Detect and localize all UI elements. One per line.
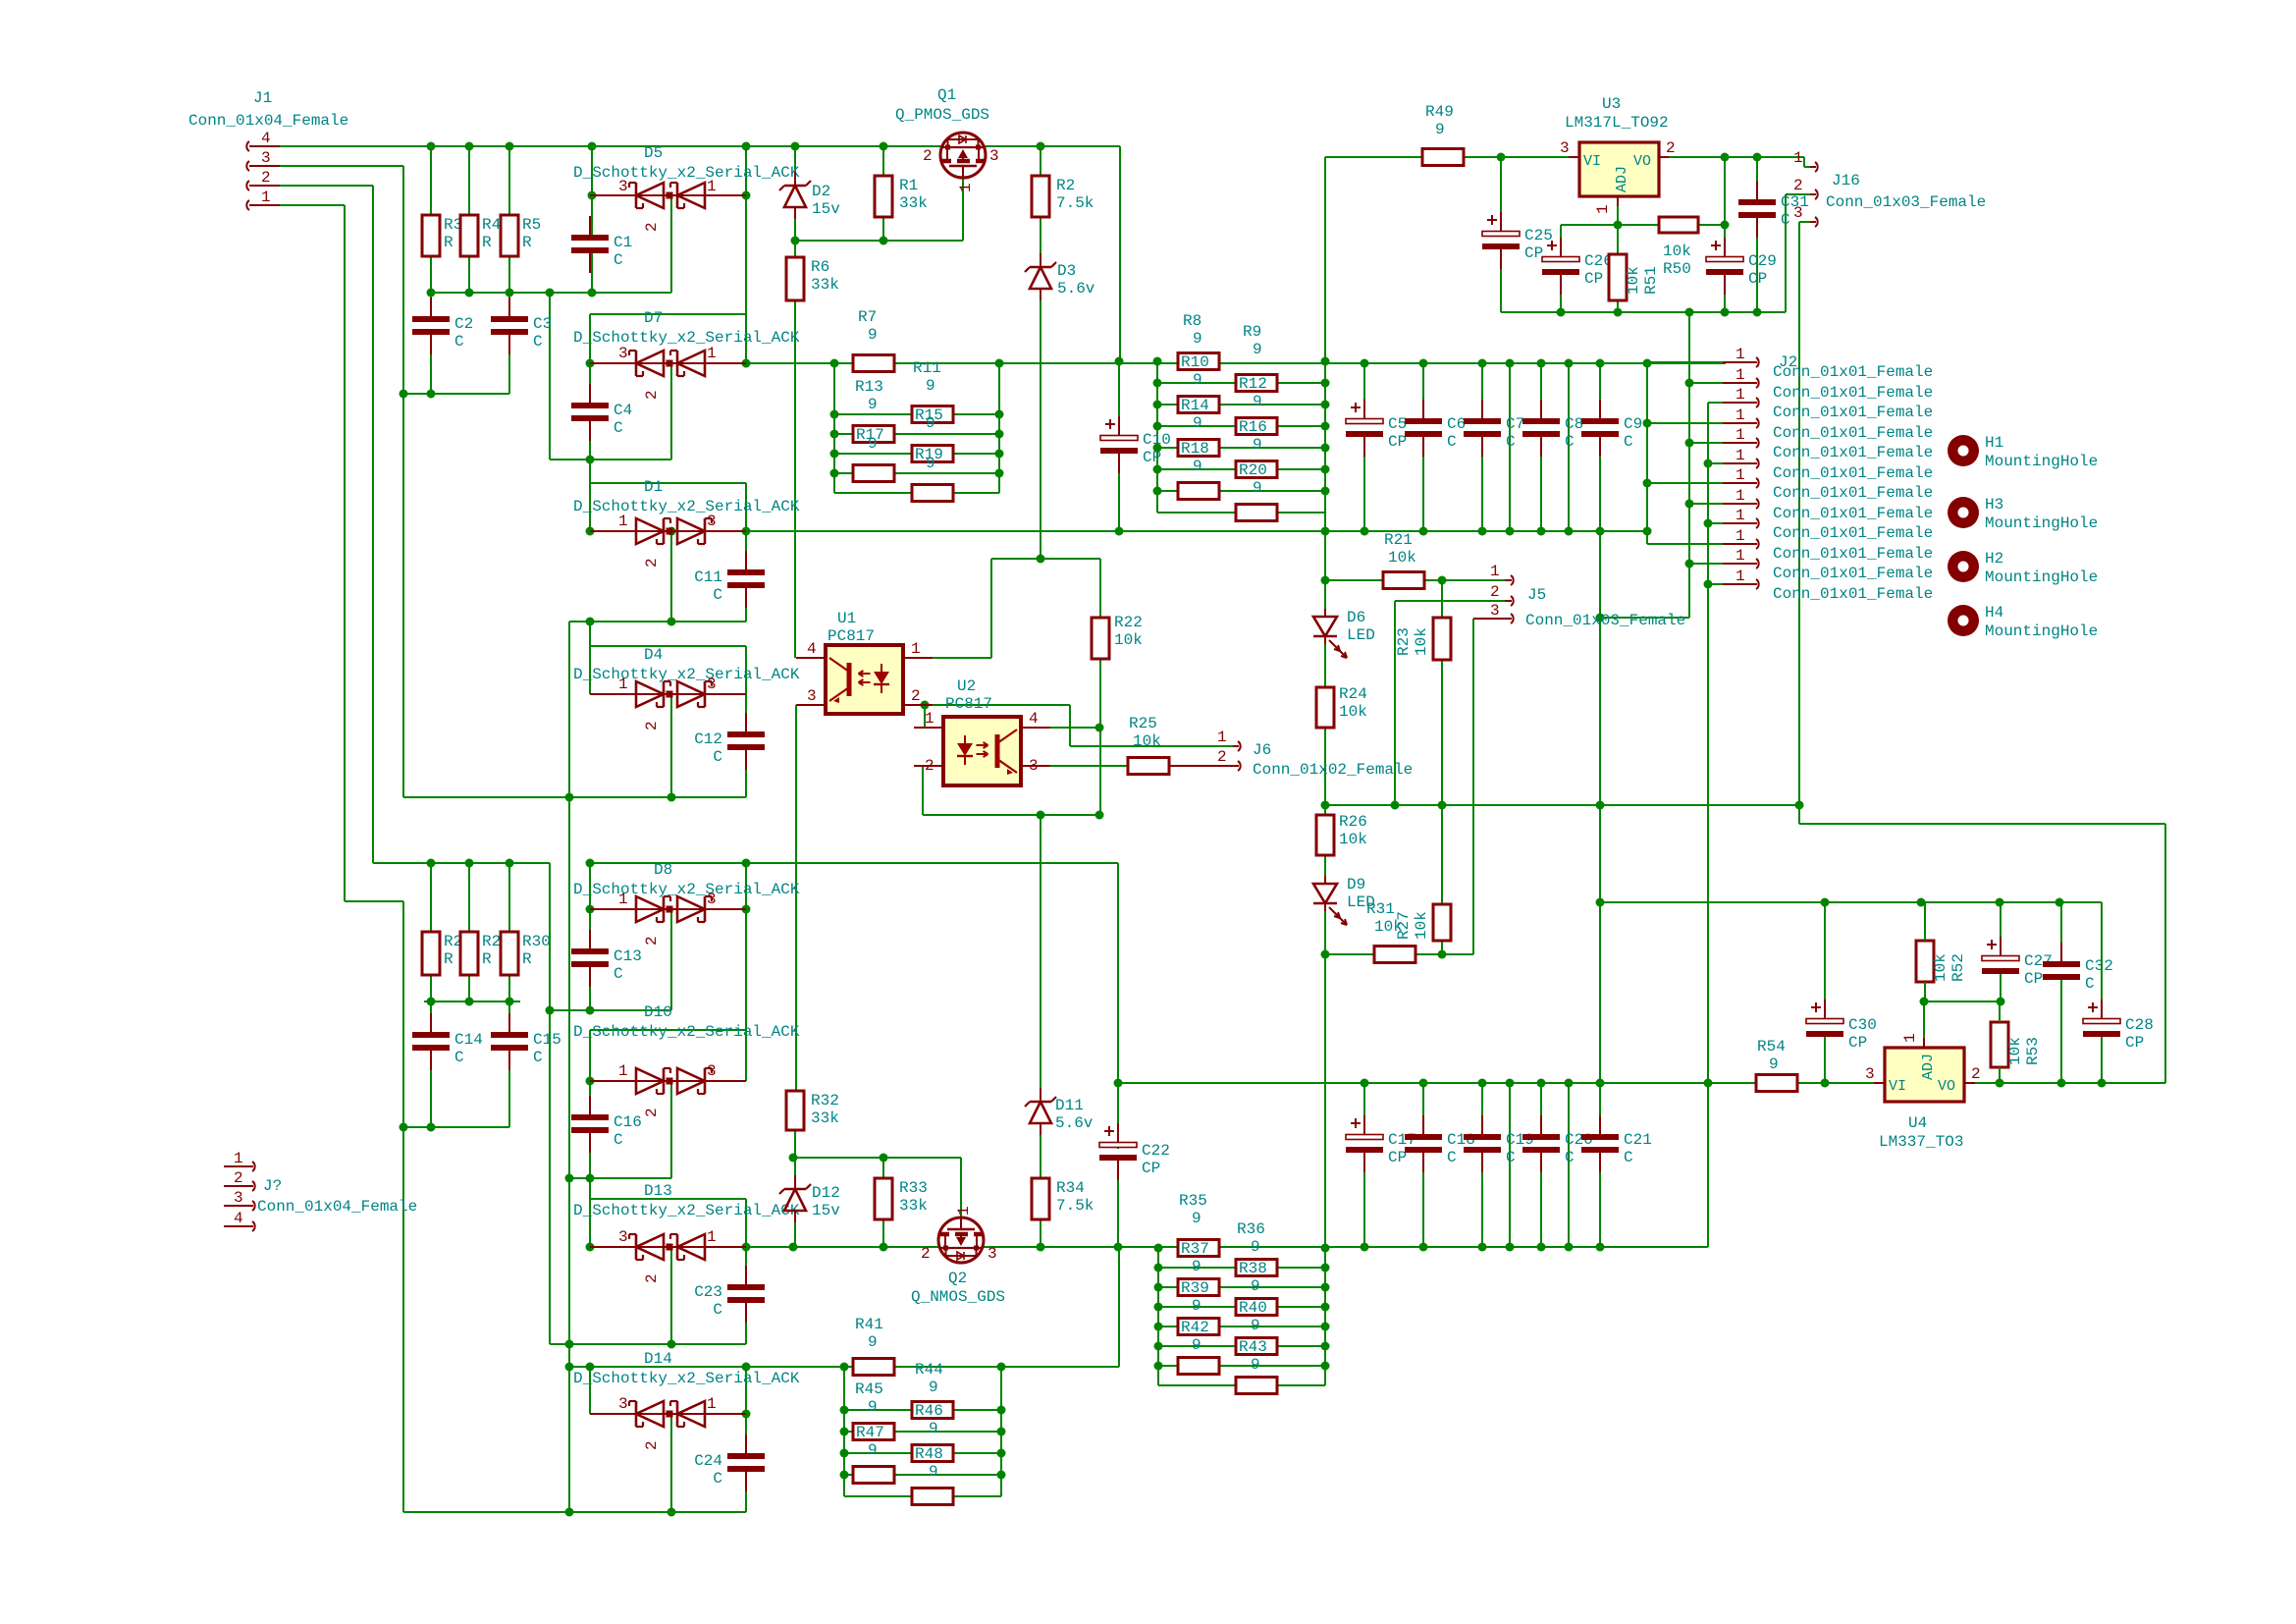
svg-text:1: 1 xyxy=(1735,426,1745,444)
wire D4 box xyxy=(589,622,591,646)
svg-text:C16: C16 xyxy=(614,1113,642,1131)
svg-text:C5: C5 xyxy=(1388,415,1407,433)
svg-text:D_Schottky_x2_Serial_ACK: D_Schottky_x2_Serial_ACK xyxy=(573,329,800,347)
resistor R48 xyxy=(912,1445,953,1462)
svg-text:D11: D11 xyxy=(1055,1097,1084,1114)
resistor R24 xyxy=(1316,687,1334,728)
resistor R10 xyxy=(1178,353,1219,370)
svg-text:J5: J5 xyxy=(1527,586,1546,604)
svg-text:H4: H4 xyxy=(1985,604,2003,622)
resistor R37 xyxy=(1178,1240,1219,1257)
svg-text:3: 3 xyxy=(618,345,628,362)
svg-text:R: R xyxy=(522,234,532,251)
svg-text:Conn_01x01_Female: Conn_01x01_Female xyxy=(1773,404,1933,421)
svg-text:9: 9 xyxy=(868,1398,878,1416)
svg-text:MountingHole: MountingHole xyxy=(1985,568,2098,586)
wire row 629 to J2 column2 xyxy=(1600,617,1689,619)
wire U4 VO row xyxy=(1964,1082,2165,1084)
resistor R15 xyxy=(912,406,953,423)
svg-text:1: 1 xyxy=(261,189,271,206)
svg-text:J16: J16 xyxy=(1832,172,1860,189)
svg-text:VI: VI xyxy=(1889,1078,1906,1095)
svg-text:MountingHole: MountingHole xyxy=(1985,623,2098,640)
svg-text:3: 3 xyxy=(618,178,628,195)
svg-text:9: 9 xyxy=(868,1441,878,1459)
svg-text:R52: R52 xyxy=(1949,953,1967,982)
svg-text:VO: VO xyxy=(1633,153,1651,170)
wire C11 column / row 633 xyxy=(745,531,747,572)
svg-text:C: C xyxy=(454,1049,464,1066)
svg-text:D_Schottky_x2_Serial_ACK: D_Schottky_x2_Serial_ACK xyxy=(573,164,800,182)
svg-text:9: 9 xyxy=(1253,341,1262,358)
zener D12 xyxy=(784,1188,806,1191)
svg-text:2: 2 xyxy=(643,721,661,731)
resistor R30 xyxy=(501,932,518,975)
resistor R3 xyxy=(422,215,440,256)
wire join verticals 1538 1598 xyxy=(1509,363,1511,531)
svg-text:R35: R35 xyxy=(1179,1192,1207,1210)
svg-text:1: 1 xyxy=(707,1228,717,1246)
capacitor C10 xyxy=(1100,436,1138,441)
svg-text:9: 9 xyxy=(1251,1238,1260,1256)
svg-text:C: C xyxy=(713,748,722,766)
svg-text:2: 2 xyxy=(923,147,933,165)
capacitor C28 xyxy=(2083,1019,2120,1024)
wire C27 leads xyxy=(2000,902,2002,937)
svg-text:Q_NMOS_GDS: Q_NMOS_GDS xyxy=(911,1288,1005,1306)
wire D10 tap and row 1200 xyxy=(670,1081,672,1178)
resistor R5 xyxy=(501,215,518,256)
svg-text:Conn_01x03_Female: Conn_01x03_Female xyxy=(1826,193,1986,211)
svg-text:3: 3 xyxy=(1560,139,1570,157)
svg-text:Conn_01x01_Female: Conn_01x01_Female xyxy=(1773,484,1933,502)
capacitor C16 xyxy=(571,1114,609,1120)
svg-text:D7: D7 xyxy=(644,309,663,327)
svg-text:R48: R48 xyxy=(915,1445,943,1463)
resistor R52 xyxy=(1916,941,1934,982)
svg-text:1: 1 xyxy=(957,183,975,192)
resistor R28 xyxy=(422,932,440,975)
svg-text:5.6v: 5.6v xyxy=(1057,280,1095,298)
svg-text:9: 9 xyxy=(1435,121,1445,138)
svg-text:2: 2 xyxy=(643,558,661,568)
resistor R29 xyxy=(460,932,478,975)
svg-text:3: 3 xyxy=(1029,757,1039,775)
zener D2 xyxy=(784,185,806,188)
svg-text:15v: 15v xyxy=(812,200,840,218)
wire U3 VI row xyxy=(1325,156,1422,158)
wire x1630 long column xyxy=(1599,363,1601,423)
svg-text:R21: R21 xyxy=(1384,531,1413,549)
svg-text:D_Schottky_x2_Serial_ACK: D_Schottky_x2_Serial_ACK xyxy=(573,498,800,515)
svg-text:C: C xyxy=(533,333,543,351)
svg-text:3: 3 xyxy=(618,1395,628,1413)
svg-text:PC817: PC817 xyxy=(945,695,992,713)
wire U1 pin3 down to R32 xyxy=(795,705,797,1091)
wire R32 D12 column xyxy=(794,1130,796,1187)
svg-text:R43: R43 xyxy=(1239,1338,1267,1356)
capacitor C11 xyxy=(727,569,765,575)
wire C25 column xyxy=(1500,157,1502,230)
resistor R18 xyxy=(1178,440,1219,457)
svg-text:Conn_01x01_Female: Conn_01x01_Female xyxy=(1773,384,1933,402)
svg-text:R32: R32 xyxy=(811,1092,839,1110)
svg-text:9: 9 xyxy=(1253,393,1262,410)
svg-text:H2: H2 xyxy=(1985,550,2003,568)
wire vertical x560 top and row 468 xyxy=(549,293,551,460)
wire C22 column xyxy=(1117,863,1119,1083)
svg-text:2: 2 xyxy=(1490,583,1500,601)
svg-text:CP: CP xyxy=(1142,1160,1160,1177)
wire R33 column xyxy=(882,1158,884,1178)
connector J5 xyxy=(1505,579,1512,581)
svg-text:9: 9 xyxy=(926,455,935,472)
svg-text:C: C xyxy=(614,1131,623,1149)
svg-text:D5: D5 xyxy=(644,144,663,162)
connector J6 xyxy=(1233,745,1239,747)
wire J16 pin3 long vertical xyxy=(1798,222,1800,824)
svg-text:Conn_01x01_Female: Conn_01x01_Female xyxy=(1773,444,1933,461)
svg-text:R13: R13 xyxy=(855,378,883,396)
wire J16 pin2 vertical xyxy=(1785,194,1787,312)
svg-text:2: 2 xyxy=(643,936,661,946)
svg-text:9: 9 xyxy=(1193,458,1202,475)
svg-text:VO: VO xyxy=(1938,1078,1955,1095)
svg-text:C: C xyxy=(454,333,464,351)
svg-text:R34: R34 xyxy=(1056,1179,1085,1197)
svg-text:1: 1 xyxy=(1490,563,1500,580)
svg-text:3: 3 xyxy=(707,891,717,908)
wire U2 pin1 up to U1 pin2 net xyxy=(914,727,925,729)
svg-text:1: 1 xyxy=(911,640,921,658)
svg-text:R24: R24 xyxy=(1339,685,1367,703)
wire C2 C3 columns and row 401 xyxy=(430,293,432,319)
svg-text:9: 9 xyxy=(926,414,935,432)
wire bus 879 segment B / D8 rails xyxy=(590,862,1118,864)
svg-text:C: C xyxy=(1447,433,1457,451)
svg-text:2: 2 xyxy=(1666,139,1676,157)
svg-text:C: C xyxy=(614,251,623,269)
capacitor C12 xyxy=(727,731,765,737)
svg-text:CP: CP xyxy=(1748,270,1767,288)
svg-text:C: C xyxy=(1624,433,1633,451)
svg-text:1: 1 xyxy=(1735,507,1745,524)
svg-text:R36: R36 xyxy=(1237,1220,1265,1238)
svg-text:C23: C23 xyxy=(694,1283,722,1301)
wire D13 box xyxy=(589,1178,591,1199)
wire R22 column xyxy=(1099,559,1101,618)
capacitor C1 xyxy=(571,235,609,241)
svg-text:10k: 10k xyxy=(1374,918,1403,936)
svg-text:C: C xyxy=(614,419,623,437)
svg-text:10k: 10k xyxy=(1339,831,1367,848)
wire J2 columns xyxy=(1646,363,1648,544)
wire C31 column xyxy=(1756,157,1758,198)
svg-text:3: 3 xyxy=(1490,602,1500,620)
svg-text:CP: CP xyxy=(1388,1149,1407,1166)
svg-text:1: 1 xyxy=(1217,729,1227,746)
svg-text:C22: C22 xyxy=(1142,1142,1170,1160)
svg-text:Conn_01x01_Female: Conn_01x01_Female xyxy=(1773,424,1933,442)
svg-text:9: 9 xyxy=(1193,330,1202,348)
wire R53 leads xyxy=(1999,1001,2001,1022)
svg-text:R2: R2 xyxy=(1056,177,1075,194)
wire row 569 xyxy=(991,558,1100,560)
svg-text:4: 4 xyxy=(261,130,271,147)
mounting hole H1 xyxy=(1948,435,1979,466)
resistor R39 xyxy=(1178,1279,1219,1296)
svg-text:R38: R38 xyxy=(1239,1260,1267,1277)
svg-text:R44: R44 xyxy=(915,1361,943,1379)
capacitor C17 xyxy=(1346,1135,1383,1140)
svg-text:R25: R25 xyxy=(1129,715,1157,732)
svg-text:2: 2 xyxy=(921,1245,931,1263)
svg-text:R51: R51 xyxy=(1642,266,1660,295)
connector J2 xyxy=(1723,361,1757,363)
wire C10 column xyxy=(1118,361,1120,420)
resistor R19 xyxy=(912,446,953,462)
svg-text:C3: C3 xyxy=(533,315,552,333)
svg-text:CP: CP xyxy=(1848,1034,1867,1052)
wire row 1029 xyxy=(550,1009,671,1011)
svg-text:MountingHole: MountingHole xyxy=(1985,514,2098,532)
svg-text:C30: C30 xyxy=(1848,1016,1877,1034)
svg-text:1: 1 xyxy=(618,891,628,908)
svg-text:10k: 10k xyxy=(2006,1037,2024,1065)
svg-text:9: 9 xyxy=(1193,414,1202,432)
wire U2 pin2 loop row 830 xyxy=(914,765,923,767)
svg-text:R26: R26 xyxy=(1339,813,1367,831)
svg-text:9: 9 xyxy=(868,435,878,453)
svg-text:Conn_01x01_Female: Conn_01x01_Female xyxy=(1773,585,1933,603)
svg-text:9: 9 xyxy=(1193,371,1202,389)
svg-text:2: 2 xyxy=(643,1273,661,1283)
wire resistor bank R7 buses xyxy=(833,363,835,493)
svg-text:4: 4 xyxy=(807,640,817,658)
svg-text:R20: R20 xyxy=(1239,461,1267,479)
svg-text:R11: R11 xyxy=(913,359,941,377)
svg-text:2: 2 xyxy=(234,1169,243,1187)
wire R28 R29 R30 columns xyxy=(430,863,432,932)
capacitor C2 xyxy=(412,316,450,322)
zener D11 xyxy=(1030,1101,1051,1104)
svg-text:R4: R4 xyxy=(482,216,501,234)
svg-text:3: 3 xyxy=(707,513,717,530)
wire D2/R1 bottom row 245 and Q1 gate xyxy=(795,240,963,242)
resistor R22 xyxy=(1092,618,1109,659)
svg-text:C6: C6 xyxy=(1447,415,1466,433)
svg-text:9: 9 xyxy=(1192,1297,1201,1315)
resistor R17 xyxy=(853,426,894,443)
wire J2 pin rows xyxy=(1647,361,1726,363)
wire U2 pin3 to R25 xyxy=(1021,765,1129,767)
svg-text:9: 9 xyxy=(1253,436,1262,454)
wire R6 column to U1 pin4 xyxy=(794,146,796,186)
svg-text:R18: R18 xyxy=(1181,440,1209,458)
svg-text:10k: 10k xyxy=(1932,953,1949,982)
svg-text:Conn_01x01_Female: Conn_01x01_Female xyxy=(1773,464,1933,482)
svg-text:J?: J? xyxy=(263,1177,282,1195)
svg-text:H3: H3 xyxy=(1985,496,2003,514)
wire x580 vertical xyxy=(568,622,570,1512)
svg-text:C: C xyxy=(713,586,722,604)
svg-text:10k: 10k xyxy=(1413,627,1430,656)
svg-text:1: 1 xyxy=(618,513,628,530)
svg-text:5.6v: 5.6v xyxy=(1055,1114,1094,1132)
svg-text:D_Schottky_x2_Serial_ACK: D_Schottky_x2_Serial_ACK xyxy=(573,1023,800,1041)
svg-text:33k: 33k xyxy=(811,1110,839,1127)
svg-text:R54: R54 xyxy=(1757,1038,1786,1056)
wire R2 D3 column xyxy=(1040,146,1041,176)
svg-text:9: 9 xyxy=(868,396,878,413)
svg-text:D12: D12 xyxy=(812,1184,840,1202)
svg-text:C15: C15 xyxy=(533,1031,561,1049)
capacitor C30 xyxy=(1806,1019,1843,1024)
svg-text:D6: D6 xyxy=(1347,609,1365,626)
connector J16 xyxy=(1810,166,1816,168)
svg-text:R23: R23 xyxy=(1395,627,1413,656)
wire resistor bank R41 buses xyxy=(843,1367,845,1496)
svg-text:CP: CP xyxy=(1584,270,1603,288)
svg-text:R49: R49 xyxy=(1425,103,1454,121)
zener D3 xyxy=(1030,266,1051,269)
svg-text:R45: R45 xyxy=(855,1380,883,1398)
svg-text:C1: C1 xyxy=(614,234,632,251)
wire D11 R34 column xyxy=(1040,816,1041,1100)
svg-text:C14: C14 xyxy=(454,1031,483,1049)
svg-text:R10: R10 xyxy=(1181,353,1209,371)
capacitor C19 xyxy=(1464,1134,1501,1140)
svg-text:9: 9 xyxy=(1251,1277,1260,1295)
svg-text:Conn_01x02_Female: Conn_01x02_Female xyxy=(1253,761,1413,779)
svg-text:C32: C32 xyxy=(2085,957,2113,975)
svg-text:9: 9 xyxy=(1253,479,1262,497)
resistor R46 xyxy=(912,1402,953,1419)
capacitor C7 xyxy=(1464,418,1501,424)
svg-text:R53: R53 xyxy=(2024,1037,2042,1065)
svg-text:C29: C29 xyxy=(1748,252,1777,270)
wire J5 pin rows xyxy=(1325,579,1505,581)
svg-text:1: 1 xyxy=(1793,149,1803,167)
wire row 298 xyxy=(431,292,671,294)
capacitor C20 xyxy=(1522,1134,1560,1140)
svg-text:R16: R16 xyxy=(1239,418,1267,436)
capacitor C24 xyxy=(727,1453,765,1459)
svg-text:4: 4 xyxy=(234,1210,243,1227)
svg-text:9: 9 xyxy=(929,1463,938,1481)
svg-text:2: 2 xyxy=(925,757,934,775)
svg-text:2: 2 xyxy=(1793,177,1803,194)
resistor R32 xyxy=(786,1091,804,1130)
svg-text:Conn_01x01_Female: Conn_01x01_Female xyxy=(1773,505,1933,522)
svg-text:J6: J6 xyxy=(1253,741,1271,759)
svg-text:H1: H1 xyxy=(1985,434,2003,452)
svg-text:R5: R5 xyxy=(522,216,541,234)
capacitor C3 xyxy=(491,316,528,322)
wire R23 R27 column xyxy=(1441,580,1443,618)
svg-text:CP: CP xyxy=(2125,1034,2144,1052)
svg-text:R: R xyxy=(482,950,492,968)
svg-text:D9: D9 xyxy=(1347,876,1365,893)
wire bus 919 xyxy=(1600,901,2102,903)
svg-text:CP: CP xyxy=(2024,970,2043,988)
svg-text:R40: R40 xyxy=(1239,1299,1267,1317)
led D9 xyxy=(1313,884,1337,903)
svg-text:9: 9 xyxy=(1251,1356,1260,1374)
svg-text:D2: D2 xyxy=(812,183,830,200)
svg-text:1: 1 xyxy=(1735,487,1745,505)
svg-text:3: 3 xyxy=(1793,204,1803,222)
svg-text:C2: C2 xyxy=(454,315,473,333)
capacitor C29 xyxy=(1706,257,1743,262)
svg-text:CP: CP xyxy=(1143,449,1161,466)
svg-text:10k: 10k xyxy=(1339,703,1367,721)
svg-text:C: C xyxy=(1506,1149,1516,1166)
wire C32 leads xyxy=(2060,902,2062,943)
svg-text:CP: CP xyxy=(1388,433,1407,451)
svg-text:D8: D8 xyxy=(654,861,672,879)
wire D14 rails xyxy=(589,1367,591,1414)
svg-text:Conn_01x01_Female: Conn_01x01_Female xyxy=(1773,524,1933,542)
capacitor C25 xyxy=(1482,232,1520,237)
svg-text:C: C xyxy=(614,965,623,983)
svg-text:R: R xyxy=(444,234,454,251)
svg-text:9: 9 xyxy=(926,377,935,395)
svg-text:R: R xyxy=(482,234,492,251)
svg-text:U1: U1 xyxy=(837,610,856,627)
resistor R53 xyxy=(1991,1022,2008,1067)
svg-text:C: C xyxy=(1565,433,1575,451)
svg-text:1: 1 xyxy=(1735,568,1745,585)
led D6 xyxy=(1313,617,1337,636)
svg-text:1: 1 xyxy=(1594,204,1612,214)
svg-text:9: 9 xyxy=(1769,1056,1779,1073)
svg-text:3: 3 xyxy=(1865,1065,1875,1083)
svg-text:C11: C11 xyxy=(694,568,722,586)
svg-text:J1: J1 xyxy=(253,89,272,107)
svg-text:D4: D4 xyxy=(644,646,663,664)
svg-text:C13: C13 xyxy=(614,947,642,965)
svg-text:D_Schottky_x2_Serial_ACK: D_Schottky_x2_Serial_ACK xyxy=(573,1202,800,1219)
capacitor C32 xyxy=(2043,961,2080,967)
svg-text:D14: D14 xyxy=(644,1350,672,1368)
resistor R51 xyxy=(1609,254,1627,300)
svg-text:LED: LED xyxy=(1347,626,1375,644)
wire row 1020 and C14 C15 xyxy=(424,1001,520,1002)
wire C30 leads xyxy=(1824,902,1826,1000)
wire J16 pin3 stub xyxy=(1799,221,1810,223)
resistor bank extra bottom-left xyxy=(853,1467,894,1484)
svg-text:R: R xyxy=(444,950,454,968)
svg-text:2: 2 xyxy=(1971,1065,1981,1083)
resistor R20 xyxy=(1236,461,1277,478)
svg-text:33k: 33k xyxy=(811,276,839,294)
svg-text:PC817: PC817 xyxy=(828,627,875,645)
svg-text:2: 2 xyxy=(911,687,921,705)
capacitor C22 xyxy=(1099,1143,1137,1148)
svg-text:Q_PMOS_GDS: Q_PMOS_GDS xyxy=(895,106,989,124)
wire D5 right rail down to D7 xyxy=(745,146,747,195)
svg-text:U3: U3 xyxy=(1602,95,1621,113)
resistor bank extra bottom-right xyxy=(1178,1358,1219,1375)
wire row 1392 R41 rail xyxy=(569,1366,1119,1368)
svg-text:1: 1 xyxy=(955,1206,973,1216)
svg-text:R8: R8 xyxy=(1183,312,1201,330)
svg-text:2: 2 xyxy=(643,1108,661,1117)
svg-text:C: C xyxy=(1781,211,1790,229)
svg-text:33k: 33k xyxy=(899,1197,928,1215)
capacitor C14 xyxy=(412,1032,450,1038)
